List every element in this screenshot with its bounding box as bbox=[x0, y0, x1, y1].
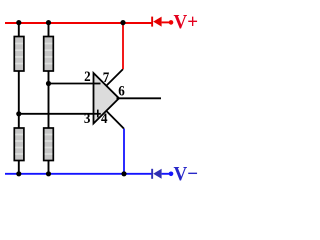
svg-text:6: 6 bbox=[118, 83, 125, 99]
svg-text:2: 2 bbox=[84, 68, 91, 84]
svg-text:7: 7 bbox=[103, 69, 110, 85]
svg-text:4: 4 bbox=[101, 110, 108, 126]
svg-text:3: 3 bbox=[84, 110, 91, 126]
svg-text:V−: V− bbox=[174, 164, 199, 186]
svg-text:V+: V+ bbox=[174, 12, 199, 34]
